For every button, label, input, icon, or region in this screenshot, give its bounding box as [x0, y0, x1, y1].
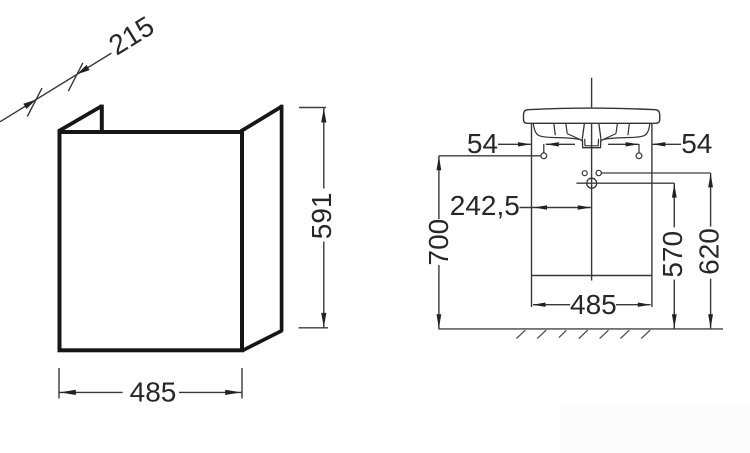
- svg-text:570: 570: [657, 231, 688, 278]
- dimension 54 right line from edge: [652, 143, 681, 145]
- dimension 215 line: [0, 53, 111, 122]
- centre line: [591, 78, 593, 281]
- cabinet right side panel top edge: [241, 106, 283, 131]
- dimension 570 line lower segment: [673, 280, 675, 329]
- cabinet bottom edge (front view): [532, 275, 652, 277]
- right fixing hole witness: [638, 144, 640, 153]
- dimension 242,5 arrow left: [534, 205, 547, 209]
- ground hatch 2: [537, 330, 546, 338]
- reference line to 570: [577, 182, 675, 184]
- faucet hole left small: [582, 171, 587, 176]
- dimension 591 arrow up: [321, 108, 326, 123]
- dimension 485 right arrow left: [533, 303, 546, 307]
- dimension 620 line lower segment: [710, 279, 712, 329]
- basin centre channel left wall: [582, 124, 584, 139]
- ground hatch 5: [600, 330, 609, 338]
- left fixing hole witness: [543, 144, 545, 153]
- dimension 54 right tail: [608, 143, 639, 145]
- dimension 215 arrow lower: [23, 100, 36, 109]
- dimension 485 right arrow right: [638, 303, 651, 307]
- cabinet right side panel bottom edge: [243, 331, 283, 351]
- dimension 54 right arrow at edge: [652, 142, 665, 146]
- dimension 485 left witness line right: [241, 368, 243, 399]
- basin facet tick right 1: [628, 124, 629, 135]
- cabinet left edge (front view): [531, 124, 533, 307]
- ground hatch 4: [579, 330, 588, 338]
- basin facet diagonal left: [567, 134, 581, 140]
- dimension 570 arrow down: [672, 314, 677, 328]
- dimension 54 left arrow at edge: [518, 142, 531, 146]
- basin facet diagonal right: [602, 134, 616, 140]
- faucet hole right small: [596, 170, 601, 175]
- faint scan shading bottom-right: [560, 405, 750, 453]
- svg-text:485: 485: [570, 289, 617, 320]
- dimension 620 line upper segment: [710, 173, 712, 227]
- right fixing hole: [636, 153, 642, 159]
- dimension 485 left line left segment: [60, 391, 123, 393]
- cabinet right side panel back edge: [280, 105, 284, 331]
- dimension 620 arrow down: [708, 314, 713, 328]
- basin underside right outer curve: [600, 124, 650, 142]
- dimension 215 tick 1: [27, 88, 42, 116]
- dimension 700 line lower segment: [438, 265, 440, 329]
- dimension 242,5 arrow right: [578, 205, 591, 209]
- ground hatch 7: [641, 330, 650, 338]
- basin centre channel right wall: [599, 124, 601, 139]
- dimension 215 arrow upper: [77, 65, 90, 74]
- dimension 242,5 line: [520, 207, 591, 209]
- reference line to 620: [601, 172, 710, 174]
- ground hatch 3: [559, 330, 566, 337]
- dimension 700 arrow down: [437, 314, 442, 328]
- basin underside left outer curve: [533, 124, 583, 142]
- dimension 485 left arrow left: [60, 390, 76, 395]
- dimension 485 right line left segment: [533, 304, 570, 306]
- dimension 570 line upper segment: [673, 183, 675, 227]
- dimension 591 arrow down: [321, 313, 326, 328]
- cabinet right edge (front view): [651, 124, 653, 307]
- svg-text:485: 485: [130, 377, 177, 408]
- cabinet front face: [60, 132, 243, 350]
- dimension 591 line lower segment: [323, 242, 325, 328]
- dimension 700 line upper segment: [438, 156, 440, 219]
- ground line: [438, 328, 723, 330]
- svg-text:591: 591: [306, 193, 337, 240]
- dimension 54 left line to edge: [498, 143, 531, 145]
- ground hatch 1: [516, 330, 525, 338]
- dimension 591 top extension tick: [299, 107, 326, 109]
- svg-text:54: 54: [681, 128, 712, 159]
- dimension 570 arrow up: [672, 184, 677, 198]
- basin facet tick left 2: [566, 124, 567, 134]
- cabinet left side panel back edge: [100, 105, 104, 131]
- dimension 215 tick 2: [68, 63, 83, 91]
- dimension 485 left line right segment: [179, 391, 242, 393]
- dimension 485 left witness line left: [58, 368, 60, 399]
- dimension 54 left tail: [546, 143, 575, 145]
- dimension 485 right line right segment: [616, 304, 651, 306]
- dimension 54 left arrow at hole: [546, 142, 559, 146]
- dimension 700 arrow up: [437, 156, 442, 170]
- left fixing hole: [541, 153, 547, 159]
- svg-text:242,5: 242,5: [450, 190, 520, 221]
- svg-text:54: 54: [467, 128, 498, 159]
- dimension 591 bottom extension tick: [299, 327, 329, 329]
- dimension 591 line upper segment: [323, 108, 325, 189]
- drain trap inner: [585, 139, 599, 146]
- svg-text:700: 700: [423, 219, 454, 266]
- basin facet tick right 2: [616, 124, 617, 134]
- dimension 54 right arrow at hole: [626, 142, 639, 146]
- drain trap outer: [582, 139, 601, 148]
- drain hole large: [587, 178, 597, 188]
- cabinet left side panel top edge: [58, 106, 102, 131]
- svg-text:620: 620: [694, 228, 725, 275]
- washbasin rim: [524, 108, 660, 123]
- dimension 700 reference line: [439, 155, 541, 157]
- svg-text:215: 215: [103, 10, 159, 61]
- basin facet tick left 1: [554, 124, 555, 135]
- dimension 620 arrow up: [708, 173, 713, 187]
- ground hatch 6: [620, 330, 629, 338]
- dimension 485 left arrow right: [225, 390, 241, 395]
